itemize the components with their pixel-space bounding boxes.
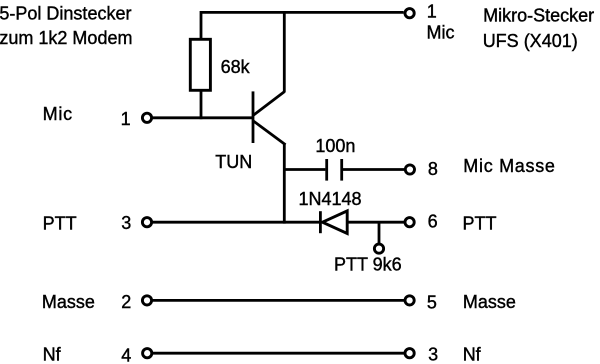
node: pin 1 Mic (right connector) [405,9,414,18]
node: pin 2 Masse (left connector) [142,296,151,305]
svg-text:Mic: Mic [43,104,73,124]
svg-text:3: 3 [121,213,131,233]
node: pin 1 Mic (left connector) [142,113,151,122]
wire: PTT line left segment to diode [153,221,320,224]
svg-text:Masse: Masse [42,292,95,312]
svg-text:1: 1 [427,2,437,22]
svg-text:100n: 100n [315,136,355,156]
svg-text:68k: 68k [221,57,251,77]
svg-text:Masse: Masse [463,292,516,312]
node: pin 5 Masse (right connector) [405,296,414,305]
transistor Q TUN [253,91,286,144]
svg-text:Mic Masse: Mic Masse [463,156,555,176]
wire: base wire pin1 to transistor [153,116,254,119]
wire: capacitor to pin 8 [343,168,404,171]
svg-text:PTT 9k6: PTT 9k6 [334,255,402,275]
wire: Nf line [153,352,405,355]
svg-text:2: 2 [121,292,131,312]
svg-text:1N4148: 1N4148 [299,189,362,209]
wire: Masse line [153,299,405,302]
wire: emitter vertical down to PTT line [283,144,286,224]
svg-text:PTT: PTT [43,214,77,234]
svg-text:6: 6 [428,212,438,232]
node: pin 6 PTT (right connector) [405,218,414,227]
svg-text:8: 8 [428,159,438,179]
svg-text:UFS (X401): UFS (X401) [483,31,578,51]
wire: stub down to PTT 9k6 [378,222,381,244]
node: pin 8 Mic Masse [405,165,414,174]
svg-text:5-Pol Dinstecker: 5-Pol Dinstecker [0,4,131,24]
svg-text:4: 4 [121,345,131,364]
diode D 1N4148 [320,211,347,234]
wire: capacitor branch from emitter line [284,168,325,171]
svg-text:PTT: PTT [463,214,497,234]
svg-text:1: 1 [121,109,131,129]
resistor R 68k [190,39,210,90]
svg-text:zum 1k2 Modem: zum 1k2 Modem [0,28,132,48]
node: PTT 9k6 terminal [374,244,383,253]
wire: diode to pin 6 [347,221,404,224]
wire: resistor bottom stub to base wire [200,90,203,119]
svg-text:5: 5 [427,293,437,313]
svg-text:Nf: Nf [43,345,62,364]
wire: top rail from resistor top stub to pin 1 Mic [201,12,404,39]
svg-text:TUN: TUN [215,152,252,172]
capacitor C 100n [327,159,342,181]
wire: collector vertical [283,12,286,92]
node: pin 3 PTT (left connector) [142,218,151,227]
node: pin 3 Nf (right connector) [405,349,414,358]
svg-text:Mic: Mic [427,23,455,43]
svg-text:3: 3 [428,345,438,364]
node: pin 4 Nf (left connector) [143,349,152,358]
svg-text:Nf: Nf [463,345,482,364]
svg-text:Mikro-Stecker: Mikro-Stecker [483,5,594,25]
